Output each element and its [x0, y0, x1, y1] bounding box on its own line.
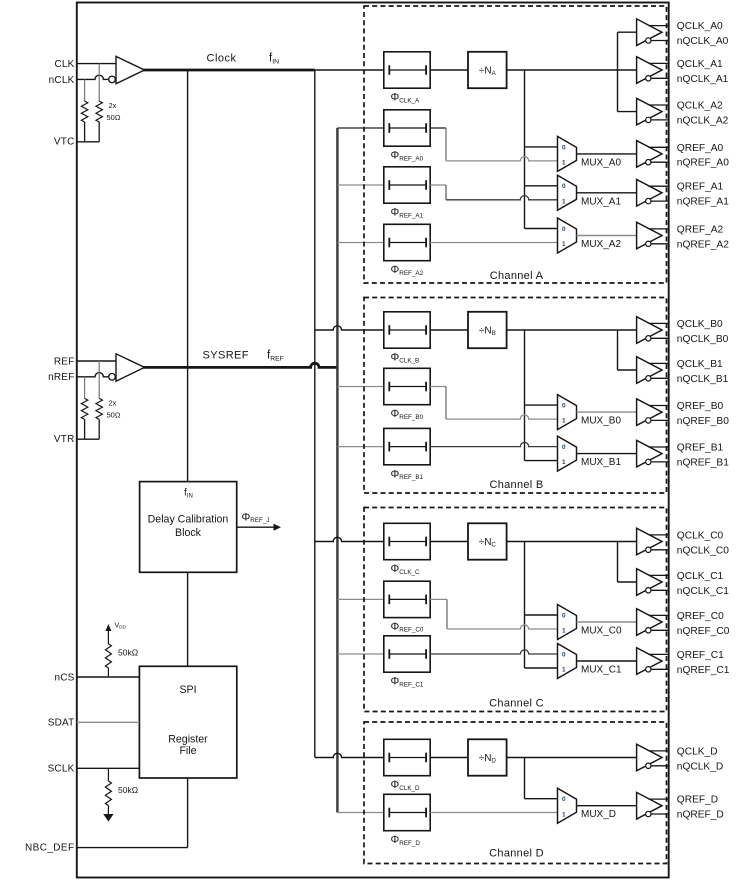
- wire branch to MUX_B1 input 1: [525, 460, 558, 462]
- divider block N_C: [468, 523, 507, 559]
- mux MUX_A2: [558, 218, 577, 253]
- channel D dashed boundary: [364, 722, 667, 864]
- wire: clock tap down to Delay Calibration Block: [187, 70, 189, 482]
- svg-text:SPI: SPI: [179, 684, 196, 696]
- svg-text:nQCLK_A2: nQCLK_A2: [677, 115, 729, 126]
- svg-text:QCLK_B0: QCLK_B0: [677, 319, 723, 330]
- wire: channel C ref feed C0: [337, 598, 383, 600]
- output buffer QREF_D: [637, 792, 662, 819]
- svg-text:QCLK_A0: QCLK_A0: [677, 21, 723, 32]
- svg-text:QCLK_C0: QCLK_C0: [677, 530, 724, 541]
- delay block Phi_REF_D: [384, 794, 430, 830]
- wire CLK input: [77, 63, 116, 65]
- wire: channel A ref feed A0: [337, 127, 383, 129]
- VDD arrow for nCS pull-up: [107, 628, 109, 644]
- wire MUX_A0 output: [577, 153, 637, 155]
- svg-text:nQREF_C0: nQREF_C0: [677, 626, 730, 637]
- output buffer QCLK_A2: [637, 98, 662, 125]
- delay block Phi_CLK_A: [384, 52, 430, 88]
- svg-text:nQCLK_B1: nQCLK_B1: [677, 374, 729, 385]
- wire divider output: [507, 329, 618, 331]
- wire MUX_A2 output: [577, 235, 637, 237]
- wire resistors to VTC: [84, 122, 86, 142]
- wire: channel A ref feed A2: [337, 242, 383, 244]
- wire Phi_CLK_D to divider: [430, 757, 468, 759]
- mux MUX_B0: [558, 395, 577, 430]
- output buffer QCLK_A1: [637, 57, 662, 84]
- wire branch to MUX_A0 input 0: [525, 146, 558, 148]
- wire output column channel A: [617, 32, 619, 111]
- wire SCLK: [77, 767, 140, 769]
- wire Phi_REF_D to MUX_D input 1: [430, 812, 557, 814]
- svg-text:MUX_D: MUX_D: [581, 809, 616, 820]
- output buffer QREF_C1: [637, 648, 662, 675]
- wire divider branch vertical to MUX_D input 0: [524, 758, 526, 799]
- output arrow PhiREF_J from Delay Calibration Block: [237, 526, 277, 528]
- wire Phi_REF_C1 to MUX_C1 input 0 (hop): [430, 650, 557, 654]
- mux MUX_C0: [558, 605, 577, 640]
- svg-text:1: 1: [562, 160, 566, 167]
- wire Phi_CLK_C to divider: [430, 541, 468, 543]
- delay block Phi_CLK_C: [384, 523, 430, 559]
- divider block N_D: [468, 739, 507, 775]
- wire: nCLK termination drop: [84, 79, 86, 101]
- wire divider output to output column: [507, 69, 618, 71]
- svg-text:QREF_B0: QREF_B0: [677, 401, 724, 412]
- input buffer U2 (REF receiver): [116, 354, 145, 381]
- wire: channel B ref feed B1: [337, 446, 383, 448]
- svg-text:Clock: Clock: [207, 53, 237, 65]
- mux MUX_B1: [558, 436, 577, 471]
- svg-text:1: 1: [562, 241, 566, 248]
- svg-text:QREF_A0: QREF_A0: [677, 143, 724, 154]
- svg-text:0: 0: [562, 144, 566, 151]
- svg-text:CLK: CLK: [54, 59, 74, 70]
- delay block Phi_REF_B0: [384, 368, 430, 404]
- wire Phi_REF_C0 to MUX_C0 input 1 (jog + hop): [430, 598, 447, 600]
- wire: clock distribution vertical: [314, 70, 316, 758]
- svg-text:QREF_D: QREF_D: [677, 795, 718, 806]
- wire NBC_DEF to SPI bottom: [77, 847, 188, 849]
- output buffer QREF_A1: [637, 180, 662, 207]
- svg-text:Register: Register: [168, 734, 208, 746]
- wire nCLK input with hop: [77, 75, 109, 79]
- svg-text:Block: Block: [175, 527, 202, 539]
- svg-text:QCLK_B1: QCLK_B1: [677, 359, 723, 370]
- svg-text:nQCLK_D: nQCLK_D: [677, 761, 723, 772]
- wire: channel A ref feed A1: [337, 184, 383, 186]
- delay block Phi_REF_B1: [384, 428, 430, 464]
- svg-text:MUX_A1: MUX_A1: [581, 196, 621, 207]
- output buffer QCLK_B0: [637, 317, 662, 344]
- output buffer QREF_A0: [637, 141, 662, 168]
- svg-text:Channel C: Channel C: [489, 698, 544, 710]
- svg-text:NBC_DEF: NBC_DEF: [25, 843, 74, 854]
- delay block Phi_REF_C1: [384, 636, 430, 672]
- resistor R4 (50 ohm, REF): [96, 398, 102, 419]
- wire MUX_A1 output: [577, 192, 637, 194]
- svg-text:1: 1: [562, 198, 566, 205]
- wire: channel B clock feed, hop over ref vertical: [315, 326, 384, 330]
- wire: channel C clock feed, hop over ref vertical: [315, 537, 384, 541]
- wire: clock trunk into channel A: [315, 69, 384, 71]
- mux MUX_A0: [558, 136, 577, 171]
- mux MUX_D: [558, 788, 577, 823]
- svg-text:0: 0: [562, 183, 566, 190]
- svg-text:50Ω: 50Ω: [107, 113, 121, 122]
- svg-text:QCLK_C1: QCLK_C1: [677, 571, 724, 582]
- wire: Clock trunk (thick) from U1 to distribution node: [144, 69, 315, 72]
- svg-text:SCLK: SCLK: [48, 764, 75, 775]
- wire resistors to VTR: [84, 419, 86, 439]
- channel B dashed boundary: [364, 298, 667, 494]
- svg-text:QREF_A1: QREF_A1: [677, 182, 724, 193]
- svg-text:MUX_B1: MUX_B1: [581, 457, 621, 468]
- wire SDAT (gray): [77, 721, 140, 723]
- svg-text:0: 0: [562, 403, 566, 410]
- svg-text:QREF_C0: QREF_C0: [677, 611, 724, 622]
- wire MUX_B1 output: [577, 453, 637, 455]
- resistor R3 (50 ohm, nREF): [81, 398, 87, 419]
- svg-text:0: 0: [562, 226, 566, 233]
- divider block N_B: [468, 312, 507, 348]
- wire divider output: [507, 541, 618, 543]
- Delay Calibration Block U3: [140, 482, 237, 573]
- svg-text:nQREF_A2: nQREF_A2: [677, 239, 729, 250]
- wire branch to MUX_A1 input 0: [525, 185, 558, 187]
- svg-text:1: 1: [562, 459, 566, 466]
- svg-text:nQCLK_A0: nQCLK_A0: [677, 36, 729, 47]
- wire: SYSREF distribution vertical (gray): [336, 128, 338, 813]
- wire: SYSREF trunk (thick) from U2 to ref node, hop over clock vertical: [144, 363, 338, 367]
- wire branch to MUX_B0 input 0: [525, 404, 558, 406]
- output buffer QCLK_C1: [637, 569, 662, 596]
- svg-text:nREF: nREF: [48, 372, 74, 383]
- svg-text:QREF_B1: QREF_B1: [677, 443, 724, 454]
- svg-text:nQREF_A1: nQREF_A1: [677, 197, 729, 208]
- svg-text:MUX_A0: MUX_A0: [581, 157, 621, 168]
- wire MUX_D output: [577, 805, 637, 807]
- resistor R2 (50 ohm, CLK): [96, 101, 102, 122]
- svg-text:nQCLK_C0: nQCLK_C0: [677, 545, 729, 556]
- wire nREF input with hop: [77, 373, 109, 377]
- resistor R6 pull-down 50k: [107, 768, 109, 781]
- svg-text:0: 0: [562, 651, 566, 658]
- svg-text:MUX_A2: MUX_A2: [581, 239, 621, 250]
- svg-text:VDD: VDD: [115, 623, 127, 630]
- output buffer QREF_B1: [637, 440, 662, 467]
- delay block Phi_REF_A0: [384, 110, 430, 146]
- SPI Register File block U4: [139, 666, 236, 778]
- wire: nREF termination drop: [84, 377, 86, 399]
- wire Phi_REF_A1 to MUX_A1 input 1 (jog + hop): [430, 184, 446, 186]
- svg-text:QREF_C1: QREF_C1: [677, 650, 724, 661]
- svg-text:Channel D: Channel D: [489, 848, 544, 860]
- delay block Phi_REF_A2: [384, 224, 430, 260]
- wire MUX_B0 output: [577, 411, 637, 413]
- wire branch to MUX_C0 input 0: [525, 614, 558, 616]
- svg-text:MUX_C1: MUX_C1: [581, 665, 622, 676]
- wire divider branch vertical: [524, 542, 526, 669]
- delay block Phi_CLK_D: [384, 739, 430, 775]
- svg-text:nQREF_B1: nQREF_B1: [677, 457, 729, 468]
- svg-text:0: 0: [562, 796, 566, 803]
- wire Phi_REF_A0 to MUX_A0 input 1 (jog + hop): [430, 127, 446, 129]
- svg-text:QCLK_A2: QCLK_A2: [677, 101, 723, 112]
- svg-text:0: 0: [562, 444, 566, 451]
- wire Phi_REF_B1 to MUX_B1 input 0 (hop): [430, 442, 557, 446]
- wire Phi_REF_B0 to MUX_B0 input 1 (jog + hop): [430, 386, 446, 388]
- svg-text:QREF_A2: QREF_A2: [677, 224, 724, 235]
- mux MUX_A1: [558, 175, 577, 210]
- wire: channel D clock feed, hop over ref vertical: [315, 753, 384, 757]
- svg-text:1: 1: [562, 628, 566, 635]
- svg-text:1: 1: [562, 667, 566, 674]
- wire REF input: [77, 360, 116, 362]
- divider block N_A: [468, 52, 507, 88]
- wire: channel C ref feed C1: [337, 653, 383, 655]
- svg-text:VTR: VTR: [54, 434, 75, 445]
- svg-text:nQREF_D: nQREF_D: [677, 810, 724, 821]
- input buffer U1 (CLK receiver): [116, 56, 145, 83]
- svg-text:nQREF_C1: nQREF_C1: [677, 665, 730, 676]
- svg-text:QCLK_D: QCLK_D: [677, 746, 718, 757]
- svg-text:50Ω: 50Ω: [107, 410, 121, 419]
- delay block Phi_REF_C0: [384, 581, 430, 617]
- wire MUX_C1 output: [577, 660, 637, 662]
- svg-text:MUX_B0: MUX_B0: [581, 416, 621, 427]
- svg-text:REF: REF: [54, 356, 75, 367]
- svg-text:nCS: nCS: [54, 672, 74, 683]
- svg-text:File: File: [179, 745, 196, 757]
- ground symbol: [103, 814, 113, 822]
- wire branch to MUX_A2 input 0: [525, 228, 558, 230]
- svg-text:1: 1: [562, 418, 566, 425]
- output buffer QCLK_D: [637, 744, 662, 771]
- wire Phi_CLK_B to divider: [430, 329, 468, 331]
- wire output column channel C: [617, 542, 619, 583]
- wire: REF termination drop: [98, 361, 100, 398]
- svg-text:50kΩ: 50kΩ: [118, 648, 138, 658]
- resistor R1 (50 ohm, nCLK): [81, 101, 87, 122]
- svg-text:0: 0: [562, 612, 566, 619]
- svg-text:SYSREF: SYSREF: [203, 350, 249, 362]
- svg-text:nQCLK_B0: nQCLK_B0: [677, 334, 729, 345]
- resistor R5 pull-up 50k: [105, 644, 111, 668]
- wire MUX_C0 output: [577, 621, 637, 623]
- svg-text:nQREF_A0: nQREF_A0: [677, 158, 729, 169]
- output buffer QCLK_B1: [637, 357, 662, 384]
- svg-text:2x: 2x: [109, 398, 117, 407]
- svg-text:nQCLK_A1: nQCLK_A1: [677, 74, 729, 85]
- wire: Delay Calibration Block to SPI block: [187, 572, 189, 666]
- svg-text:Channel B: Channel B: [489, 479, 543, 491]
- wire Phi_REF_A2 to MUX_A2 input 1: [430, 242, 557, 244]
- svg-text:1: 1: [562, 811, 566, 818]
- output buffer QREF_A2: [637, 222, 662, 249]
- svg-text:2x: 2x: [109, 101, 117, 110]
- wire divider output to buffer: [507, 757, 637, 759]
- wire: channel B ref feed B0: [337, 386, 383, 388]
- wire Phi_CLK_A to divider: [430, 69, 468, 71]
- svg-text:MUX_C0: MUX_C0: [581, 626, 622, 637]
- wire branch to MUX_C1 input 1: [525, 667, 558, 669]
- output buffer QREF_B0: [637, 399, 662, 426]
- wire divider branch vertical: [524, 330, 526, 461]
- svg-text:nQCLK_C1: nQCLK_C1: [677, 586, 729, 597]
- svg-text:SDAT: SDAT: [48, 718, 75, 729]
- wire output column channel B: [617, 330, 619, 370]
- svg-text:VTC: VTC: [54, 137, 75, 148]
- output buffer QCLK_C0: [637, 528, 662, 555]
- mux MUX_C1: [558, 644, 577, 679]
- output buffer QREF_C0: [637, 609, 662, 636]
- wire: channel D ref feed: [337, 812, 383, 814]
- output buffer QCLK_A0: [637, 19, 662, 46]
- wire divider branch vertical: [524, 70, 526, 229]
- wire nCS: [77, 676, 140, 678]
- outer chip boundary box: [77, 3, 669, 878]
- channel A dashed boundary: [364, 6, 667, 283]
- delay block Phi_REF_A1: [384, 167, 430, 203]
- svg-text:Channel A: Channel A: [490, 270, 544, 282]
- channel C dashed boundary: [364, 508, 667, 712]
- svg-text:nQREF_B0: nQREF_B0: [677, 416, 729, 427]
- svg-text:Delay Calibration: Delay Calibration: [148, 514, 229, 526]
- svg-text:QCLK_A1: QCLK_A1: [677, 59, 723, 70]
- svg-text:50kΩ: 50kΩ: [118, 785, 138, 795]
- svg-text:nCLK: nCLK: [49, 75, 75, 86]
- delay block Phi_CLK_B: [384, 312, 430, 348]
- wire: CLK termination drop from CLK line: [98, 64, 100, 101]
